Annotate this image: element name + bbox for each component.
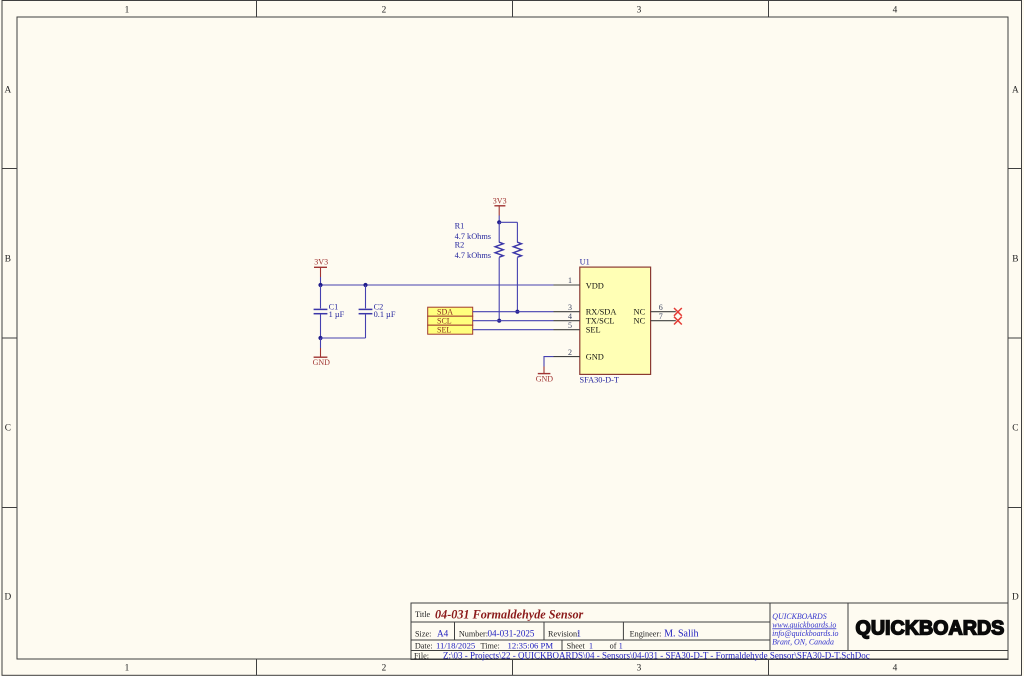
svg-text:SCL: SCL bbox=[437, 316, 452, 325]
svg-text:of: of bbox=[610, 642, 617, 651]
svg-text:Size:: Size: bbox=[415, 629, 431, 638]
svg-text:NC: NC bbox=[634, 308, 646, 317]
svg-text:C: C bbox=[5, 424, 11, 434]
svg-text:U1: U1 bbox=[580, 257, 590, 266]
svg-text:Time:: Time: bbox=[481, 642, 500, 651]
svg-text:12:35:06 PM: 12:35:06 PM bbox=[508, 641, 554, 651]
no-connect X pin 7 bbox=[674, 317, 682, 325]
pin 6 NC bbox=[651, 303, 676, 312]
svg-text:TX/SCL: TX/SCL bbox=[586, 317, 615, 326]
title block grid bbox=[411, 603, 1008, 660]
svg-text:D: D bbox=[4, 593, 11, 603]
svg-text:4: 4 bbox=[893, 6, 898, 16]
wire GND pin2 bbox=[544, 357, 554, 367]
resistor R2 bbox=[455, 222, 522, 311]
svg-text:3: 3 bbox=[637, 6, 642, 16]
svg-text:4: 4 bbox=[568, 312, 572, 321]
svg-text:1: 1 bbox=[619, 642, 623, 651]
svg-text:Date:: Date: bbox=[415, 642, 433, 651]
svg-text:2: 2 bbox=[382, 6, 387, 16]
net label SDA bbox=[428, 307, 473, 316]
power 3V3 left bbox=[314, 257, 328, 277]
wire SEL bbox=[473, 329, 554, 331]
svg-text:M. Salih: M. Salih bbox=[664, 628, 698, 639]
svg-text:Title: Title bbox=[415, 610, 431, 619]
svg-text:1: 1 bbox=[125, 6, 130, 16]
svg-text:Sheet: Sheet bbox=[567, 642, 586, 651]
svg-text:1: 1 bbox=[577, 628, 582, 638]
svg-text:3: 3 bbox=[637, 663, 642, 673]
pin 1 VDD bbox=[554, 276, 580, 285]
svg-text:www.quickboards.io: www.quickboards.io bbox=[772, 620, 836, 629]
svg-text:File:: File: bbox=[414, 652, 429, 661]
title row bbox=[415, 608, 584, 622]
svg-text:4.7 kOhms: 4.7 kOhms bbox=[455, 251, 491, 260]
svg-text:VDD: VDD bbox=[586, 281, 604, 290]
svg-text:R1: R1 bbox=[455, 222, 465, 231]
svg-text:A: A bbox=[4, 85, 11, 95]
wire 3V3 to VDD rail bbox=[320, 277, 322, 285]
svg-text:B: B bbox=[5, 255, 11, 265]
svg-text:SEL: SEL bbox=[437, 325, 451, 334]
junction R1 on SCL wire bbox=[497, 319, 501, 323]
TITLEBLOCK bbox=[411, 603, 1008, 661]
svg-text:4: 4 bbox=[893, 663, 898, 673]
file row bbox=[414, 651, 870, 661]
svg-text:D: D bbox=[1012, 593, 1019, 603]
svg-text:1: 1 bbox=[125, 663, 130, 673]
svg-text:2: 2 bbox=[382, 663, 387, 673]
svg-text:SEL: SEL bbox=[586, 326, 601, 335]
svg-text:QUICKBOARDS: QUICKBOARDS bbox=[856, 617, 1005, 639]
svg-text:Number:: Number: bbox=[459, 629, 488, 638]
svg-text:04-031-2025: 04-031-2025 bbox=[488, 628, 535, 638]
svg-text:A: A bbox=[1012, 85, 1019, 95]
svg-text:B: B bbox=[1012, 255, 1018, 265]
svg-text:6: 6 bbox=[659, 303, 663, 312]
IC U1 body bbox=[580, 257, 651, 384]
wire SCL bbox=[473, 320, 554, 322]
wire 3V3 top stub bbox=[498, 216, 500, 223]
pin 3 RX/SDA bbox=[554, 303, 580, 312]
svg-text:RX/SDA: RX/SDA bbox=[586, 308, 617, 317]
svg-text:GND: GND bbox=[586, 353, 604, 362]
svg-text:3V3: 3V3 bbox=[314, 257, 328, 266]
svg-text:11/18/2025: 11/18/2025 bbox=[436, 641, 475, 651]
pin 4 TX/SCL bbox=[554, 312, 580, 321]
ground GND right bbox=[536, 367, 554, 384]
svg-text:5: 5 bbox=[568, 321, 572, 330]
svg-text:2: 2 bbox=[568, 348, 572, 357]
net label SEL bbox=[428, 325, 473, 334]
junction R2 on SDA wire bbox=[515, 310, 519, 314]
svg-text:C: C bbox=[1012, 424, 1018, 434]
date/time/sheet row bbox=[415, 641, 623, 651]
pin 7 NC bbox=[651, 312, 676, 321]
svg-text:04-031 Formaldehyde Sensor: 04-031 Formaldehyde Sensor bbox=[435, 608, 584, 622]
svg-text:7: 7 bbox=[659, 312, 663, 321]
power 3V3 top bbox=[493, 196, 507, 215]
junction at 3V3/C1 bbox=[318, 283, 322, 287]
wire SDA bbox=[473, 311, 554, 313]
company info block bbox=[772, 612, 838, 647]
junction at R1/R2 top bbox=[497, 220, 501, 224]
svg-text:1 µF: 1 µF bbox=[329, 310, 345, 319]
junction at C1/C2 bottom bbox=[318, 336, 322, 340]
svg-text:A4: A4 bbox=[437, 628, 449, 638]
svg-text:R2: R2 bbox=[455, 241, 465, 250]
SCHEMATIC bbox=[313, 196, 682, 384]
no-connect X pin 6 bbox=[674, 308, 682, 316]
svg-text:GND: GND bbox=[313, 358, 331, 367]
size/number/revision/engineer row bbox=[415, 628, 699, 639]
capacitor C1 bbox=[314, 285, 345, 338]
svg-text:Revision:: Revision: bbox=[548, 629, 579, 638]
svg-text:GND: GND bbox=[536, 375, 554, 384]
svg-text:SFA30-D-T: SFA30-D-T bbox=[580, 376, 620, 385]
svg-text:Engineer:: Engineer: bbox=[630, 629, 662, 638]
pin 2 GND bbox=[554, 348, 580, 357]
svg-text:0.1 µF: 0.1 µF bbox=[374, 310, 396, 319]
svg-text:Brant, ON, Canada: Brant, ON, Canada bbox=[772, 638, 834, 647]
svg-text:SDA: SDA bbox=[437, 307, 453, 316]
ground GND left bbox=[313, 338, 331, 367]
net label SCL bbox=[428, 316, 473, 325]
svg-text:1: 1 bbox=[589, 642, 593, 651]
svg-text:3V3: 3V3 bbox=[493, 196, 507, 205]
junction at C2 tap bbox=[363, 283, 367, 287]
wire to R2 column bbox=[499, 221, 517, 223]
wire C1 bottom to C2 bottom bbox=[321, 337, 366, 339]
company logo QUICKBOARDS bbox=[856, 617, 1005, 639]
capacitor C2 bbox=[359, 285, 396, 338]
wire VDD rail horizontal bbox=[321, 284, 554, 286]
svg-text:NC: NC bbox=[634, 317, 646, 326]
svg-text:3: 3 bbox=[568, 303, 572, 312]
resistor R1 bbox=[455, 222, 504, 321]
svg-text:Z:\03 - Projects\22 - QUICKBOA: Z:\03 - Projects\22 - QUICKBOARDS\04 - S… bbox=[443, 651, 870, 661]
svg-text:1: 1 bbox=[568, 276, 572, 285]
pin 5 SEL bbox=[554, 321, 580, 330]
